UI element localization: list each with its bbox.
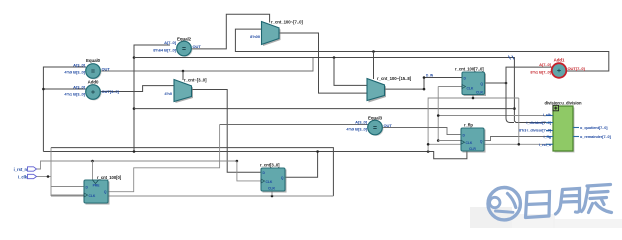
wire clk to division i_clk	[438, 115, 553, 117]
wire clk vertical	[50, 148, 52, 196]
wire Add0.OUT to mux2 upper input	[100, 86, 174, 92]
mux M3 r_cnt_100~[15..8]	[367, 76, 412, 103]
wire Equal2.OUT to mux1 selector	[191, 14, 270, 49]
wire long horizontal y108.6	[134, 108, 514, 110]
node junction mux2 sel	[182, 70, 185, 73]
node junction rst riser div tap	[427, 143, 430, 146]
wire mux3 output to FF D and division i_clk	[384, 88, 424, 90]
svg-text:OUT: OUT	[384, 123, 393, 128]
svg-text:OUT[7..0]: OUT[7..0]	[568, 66, 586, 71]
svg-text:i_divided[7..0]: i_divided[7..0]	[526, 121, 551, 125]
wire Q up to Add1.A	[506, 67, 552, 83]
wire clk to FF0 D	[51, 186, 84, 188]
node junction y108.6 cross	[513, 107, 516, 110]
equality comparator Equal3	[346, 116, 392, 137]
wire clk riser right	[437, 87, 439, 141]
svg-text:i_rst_n: i_rst_n	[539, 143, 552, 147]
svg-text:division:u_division: division:u_division	[545, 101, 582, 106]
wire Q100[0] out	[108, 125, 220, 192]
flip-flop r_cnt[3..0]	[260, 163, 287, 193]
watermark character chen	[582, 185, 612, 213]
svg-text:r_cnt_100~[15..8]: r_cnt_100~[15..8]	[377, 76, 412, 81]
wire Add1.OUT right side	[566, 70, 609, 72]
svg-text:i_flg: i_flg	[543, 135, 551, 139]
wire bus y57.5 to division i_divided	[134, 58, 553, 123]
svg-text:Equal0: Equal0	[86, 58, 101, 63]
node junction Add0.A tap	[42, 88, 45, 91]
equality comparator Equal2	[153, 37, 201, 58]
watermark background shapes	[470, 207, 512, 228]
svg-text:8'h64 B[7..0]: 8'h64 B[7..0]	[153, 47, 176, 52]
wire Equal0.OUT to mux sel	[100, 58, 313, 72]
svg-text:8'h00: 8'h00	[250, 34, 261, 39]
adder Add1 (selected, red highlight)	[530, 58, 585, 78]
svg-text:CLR: CLR	[476, 90, 483, 94]
wire mux1 upper input loop from Add1.OUT feedback	[235, 29, 608, 71]
svg-text:A[7..0]: A[7..0]	[164, 40, 177, 45]
flip-flop r_flp	[461, 123, 486, 153]
wire rst distribution to CLR pins and division	[472, 95, 474, 99]
svg-text:A[3..0]: A[3..0]	[73, 84, 86, 89]
bus rip marks on divided bus	[508, 56, 514, 60]
svg-text:Q: Q	[480, 139, 483, 143]
wire net r_cnt feedback vertical left	[43, 67, 86, 152]
svg-text:8'h3 i_divisor[7..0]: 8'h3 i_divisor[7..0]	[519, 128, 552, 132]
node junction PRE tap	[91, 160, 94, 163]
wire mux3 selector drop	[373, 52, 375, 80]
wire mux2 selector drop	[182, 71, 184, 80]
svg-text:CLR: CLR	[268, 187, 275, 191]
wire Equal3.A from Q100[0] net	[220, 124, 368, 126]
svg-text:Q: Q	[104, 190, 107, 194]
svg-text:o_remainder[7..0]: o_remainder[7..0]	[580, 135, 612, 139]
wire mux1 output down to mux3 lower input	[279, 33, 367, 93]
svg-text:CLK: CLK	[466, 141, 473, 145]
svg-text:PRE: PRE	[93, 184, 101, 188]
svg-text:Q: Q	[281, 176, 284, 180]
svg-text:Equal3: Equal3	[368, 116, 383, 121]
node junction mux3 upper input tap	[333, 56, 336, 59]
wire r_cnt.Q long horizontal	[43, 152, 467, 159]
node junction clk div tap	[437, 114, 440, 117]
wire clk to r_flp CLK	[438, 140, 461, 142]
wire second bottom horizontal	[51, 148, 333, 196]
wire r_cnt CLR stub	[271, 191, 273, 196]
wire clk to FF r_cnt_100[7..0] CLK	[438, 86, 462, 88]
svg-text:D_IN: D_IN	[426, 74, 434, 78]
wire i_clk from pin	[36, 176, 52, 178]
svg-text:A[7..0]: A[7..0]	[539, 62, 552, 67]
svg-text:CLK: CLK	[266, 180, 273, 184]
svg-text:4'h1 B[3..0]: 4'h1 B[3..0]	[64, 92, 85, 97]
svg-text:i_clk: i_clk	[543, 113, 552, 117]
svg-text:OUT[3..0]: OUT[3..0]	[102, 89, 120, 94]
wire Equal3.OUT to r_flp.D	[382, 128, 461, 135]
wire to r_cnt ena	[237, 161, 261, 181]
svg-text:A[3..0]: A[3..0]	[73, 62, 86, 67]
svg-text:Add0: Add0	[88, 80, 99, 85]
flip-flop r_cnt_100[0]	[84, 175, 122, 205]
svg-text:Equal2: Equal2	[177, 37, 192, 42]
svg-text:CLR: CLR	[469, 147, 476, 151]
node junction Q tap	[505, 82, 508, 85]
svg-text:CLK: CLK	[89, 194, 96, 198]
svg-text:Add1: Add1	[554, 58, 565, 63]
svg-text:o_quotient[7..0]: o_quotient[7..0]	[580, 126, 608, 130]
wire clk to FF0 CLK	[51, 194, 84, 196]
svg-text:r_cnt_100~[7..0]: r_cnt_100~[7..0]	[271, 20, 303, 25]
svg-text:r_cnt[3..0]: r_cnt[3..0]	[260, 163, 280, 168]
wire r_cnt_100[7..0].Q fanout	[485, 82, 507, 84]
svg-text:4'h9 B[3..0]: 4'h9 B[3..0]	[346, 127, 367, 132]
node junction r_flp clr line	[427, 150, 430, 153]
mux M2 r_cnt~[3..0]	[164, 78, 207, 104]
wire Equal2.A riser x=134	[134, 45, 170, 152]
wire rst riser right	[428, 98, 519, 152]
svg-text:4'h9 B[3..0]: 4'h9 B[3..0]	[64, 70, 85, 75]
svg-text:OUT: OUT	[193, 44, 202, 49]
node junction clk riser	[47, 175, 50, 178]
svg-text:r_cnt~[3..0]: r_cnt~[3..0]	[184, 78, 207, 83]
wire clk long bottom	[51, 195, 333, 197]
wire mux2 output down to r_cnt.D	[191, 90, 262, 173]
wire Q down to i_divided corner	[506, 83, 514, 123]
wire r_flp.Q to division i_flg	[485, 137, 554, 141]
svg-text:Q: Q	[480, 82, 483, 86]
svg-text:OUT: OUT	[102, 66, 111, 71]
node junction r_cnt.Q riser	[316, 150, 319, 153]
module division:u_division	[519, 101, 612, 153]
wire mux3 upper input drop	[334, 58, 367, 86]
mux M1 r_cnt_100~[7..0]	[250, 20, 303, 46]
watermark character ri	[526, 192, 550, 218]
watermark character yue	[556, 189, 580, 215]
node junction rst div	[518, 143, 521, 146]
input pin i_clk	[18, 174, 37, 179]
svg-text:r_flp: r_flp	[464, 123, 473, 128]
node junction mux3 selector tap	[372, 50, 375, 53]
node junction x134 y108.6	[133, 107, 136, 110]
watermark logo circle	[488, 188, 520, 220]
node junction r_cnt clr	[271, 195, 274, 198]
node junction mux3 out	[423, 88, 426, 91]
node junction r_flp clk tap	[437, 139, 440, 142]
input pin i_rst_n	[14, 167, 37, 172]
svg-text:i_rst_n: i_rst_n	[14, 167, 28, 172]
wire r_cnt.Q up to feedback line	[285, 152, 318, 178]
svg-text:r_cnt_100[0]: r_cnt_100[0]	[97, 175, 122, 180]
equality comparator Equal0	[64, 58, 110, 80]
node junction x134 y57.5	[133, 56, 136, 59]
svg-text:i_clk: i_clk	[18, 175, 28, 180]
node junction x134 bottom	[133, 150, 136, 153]
adder Add0	[64, 80, 119, 101]
svg-text:CLK: CLK	[467, 86, 474, 90]
wire i_rst_n from pin	[36, 161, 238, 169]
svg-text:r_cnt_100[7..0]: r_cnt_100[7..0]	[455, 67, 484, 72]
node junction ena riser	[236, 160, 239, 163]
svg-text:A[3..0]: A[3..0]	[355, 119, 368, 124]
node junction CLR tap	[472, 97, 475, 100]
svg-text:8'h1 B[7..0]: 8'h1 B[7..0]	[530, 69, 551, 74]
flip-flop r_cnt_100[7..0]	[455, 67, 486, 96]
node junction FF D tap	[423, 76, 426, 79]
svg-text:4'h0: 4'h0	[164, 91, 172, 96]
wire PRE drop	[92, 161, 94, 180]
